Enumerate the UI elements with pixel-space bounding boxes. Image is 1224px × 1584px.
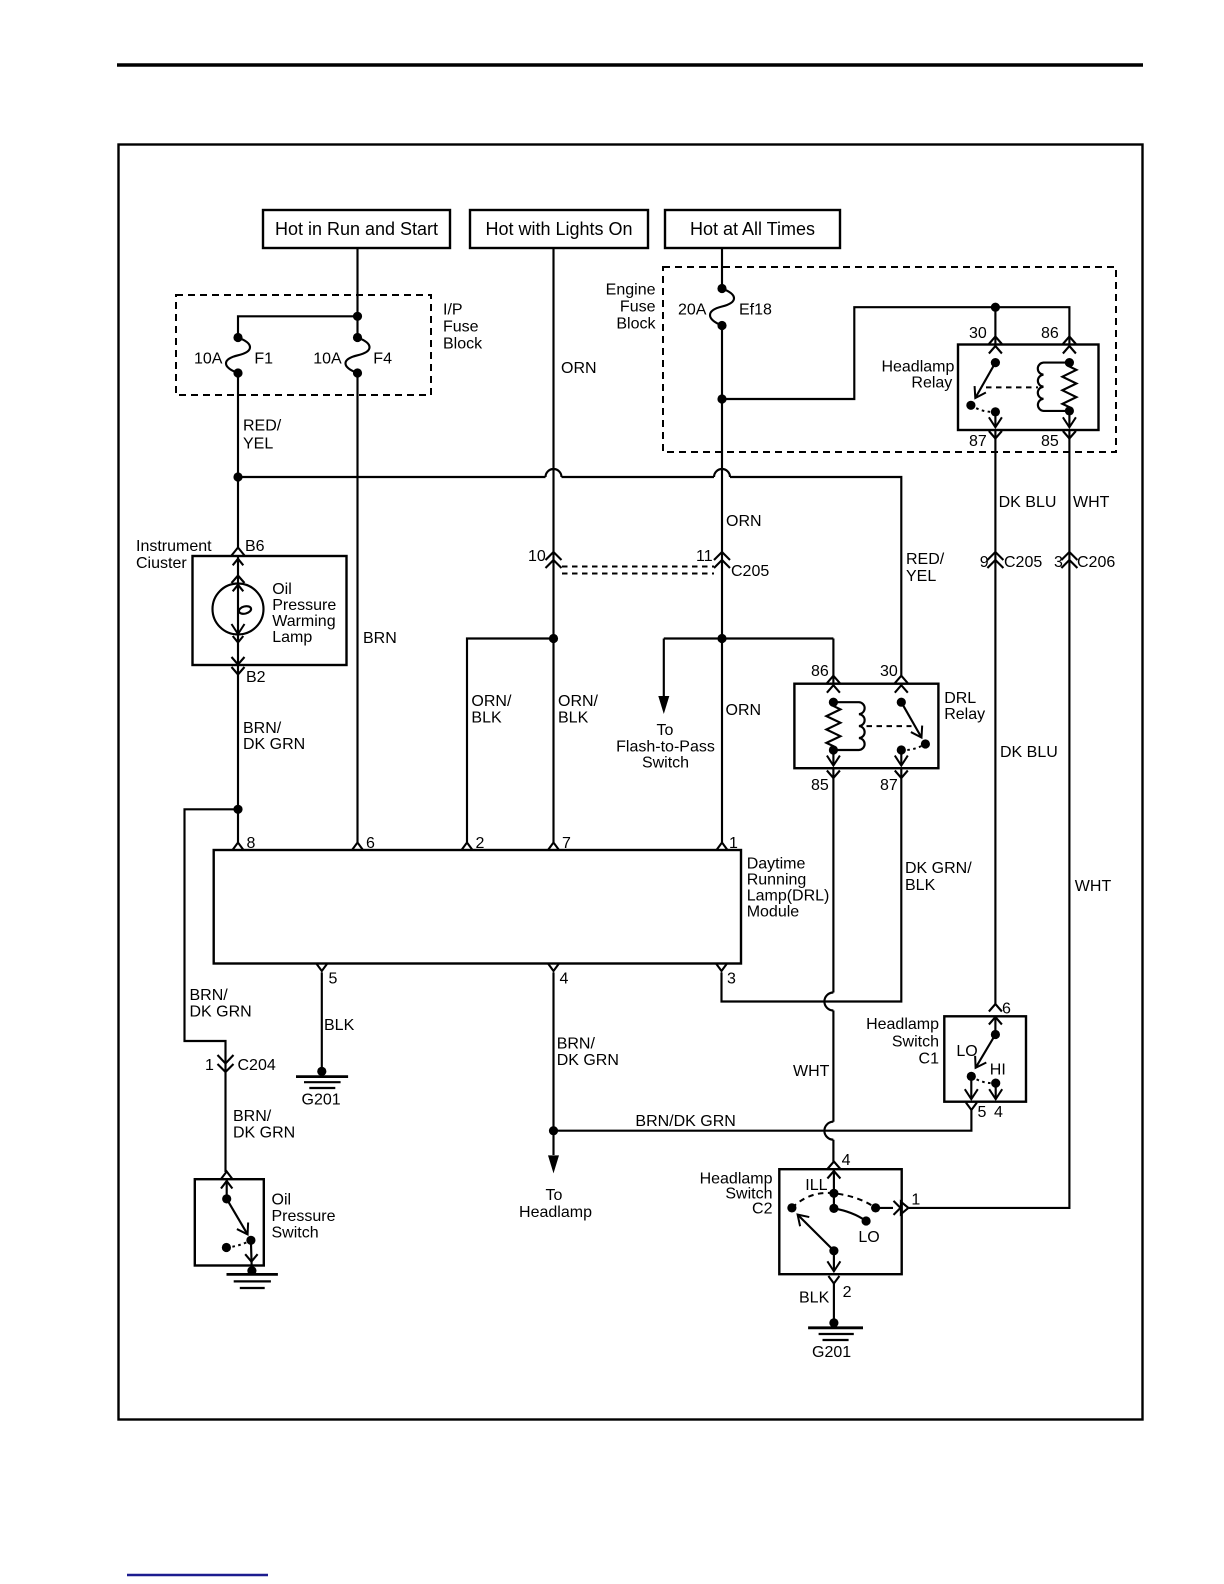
- wire BRN/DK GRN DRL module pin 4 to headlamp: [554, 972, 619, 1155]
- svg-text:Hot with Lights On: Hot with Lights On: [485, 219, 632, 239]
- wire Hot in Run and Start down to I/P fuse block: [356, 248, 358, 338]
- svg-text:Oil: Oil: [272, 1192, 292, 1209]
- node junction ORN/BLK split: [549, 634, 558, 643]
- node to headlamp: [519, 1155, 592, 1221]
- svg-text:Headlamp: Headlamp: [519, 1204, 592, 1221]
- pin 4 headlamp switch C2: [827, 1152, 850, 1179]
- svg-text:Daytime: Daytime: [747, 856, 806, 873]
- svg-text:86: 86: [811, 663, 829, 680]
- svg-text:BRN: BRN: [363, 630, 397, 647]
- svg-text:Hot in Run and Start: Hot in Run and Start: [275, 219, 438, 239]
- wire ORN branch to flash-to-pass and DRL relay 86: [664, 639, 834, 697]
- svg-text:Switch: Switch: [892, 1034, 939, 1051]
- svg-text:C205: C205: [731, 563, 769, 580]
- svg-text:Lamp: Lamp: [272, 629, 312, 646]
- pin 30 DRL relay: [880, 663, 908, 693]
- svg-text:7: 7: [562, 835, 571, 852]
- svg-text:1: 1: [911, 1192, 920, 1209]
- node Hot at All Times: [665, 210, 840, 248]
- pin 6 DRL module: [352, 835, 375, 852]
- svg-text:Block: Block: [443, 336, 483, 353]
- svg-text:LO: LO: [956, 1043, 977, 1060]
- wire Hot at All Times down to Ef18: [721, 248, 723, 289]
- svg-text:10: 10: [528, 548, 546, 565]
- resistor DRL relay: [826, 698, 840, 766]
- svg-text:30: 30: [969, 325, 987, 342]
- svg-text:G201: G201: [302, 1092, 341, 1109]
- svg-text:ORN: ORN: [726, 702, 762, 719]
- svg-text:ORN/: ORN/: [471, 693, 512, 710]
- node RED/YEL junction: [233, 472, 242, 481]
- I/P fuse block: [176, 295, 483, 395]
- switch S1 headlamp switch C1: [866, 1016, 1026, 1102]
- fuse Ef18 20A: [678, 284, 772, 330]
- connector C204 pin 1: [205, 1055, 276, 1074]
- svg-text:Relay: Relay: [911, 375, 952, 392]
- pin 8 DRL module: [233, 835, 256, 852]
- svg-text:87: 87: [880, 777, 898, 794]
- svg-text:6: 6: [366, 835, 375, 852]
- svg-text:DK BLU: DK BLU: [1000, 744, 1058, 761]
- svg-text:Ciuster: Ciuster: [136, 555, 187, 572]
- svg-text:BRN/: BRN/: [190, 987, 229, 1004]
- ground G201 left: [296, 1067, 348, 1109]
- svg-text:Pressure: Pressure: [272, 1208, 336, 1225]
- pin 6 headlamp switch C1: [989, 1001, 1011, 1025]
- wire branch to fuse F1: [238, 316, 358, 337]
- pin B6: [232, 538, 265, 556]
- svg-text:B2: B2: [246, 669, 266, 686]
- wire ORN junction to DRL module pin 1: [722, 639, 761, 843]
- headlamp relay switch: [966, 358, 1000, 427]
- svg-text:ORN: ORN: [726, 513, 762, 530]
- svg-text:WHT: WHT: [1073, 494, 1110, 511]
- svg-text:4: 4: [994, 1104, 1003, 1121]
- pin 85 DRL relay: [811, 771, 840, 795]
- module DRL: daytime running lamp module: [214, 850, 830, 964]
- node junction ORN split: [717, 634, 726, 643]
- svg-text:10A: 10A: [313, 350, 342, 367]
- wire BRN from F4 to DRL module pin 6: [358, 373, 397, 842]
- wire DK BLU headlamp relay 87 to headlamp switch C1 pin 6: [995, 430, 1057, 1004]
- svg-text:4: 4: [560, 971, 569, 988]
- svg-text:Fuse: Fuse: [443, 319, 479, 336]
- svg-text:C206: C206: [1077, 554, 1115, 571]
- wire ORN from Hot with Lights On: [554, 248, 597, 639]
- wire RED/YEL from F1 to instrument cluster B6: [238, 373, 282, 548]
- svg-text:Hot at All Times: Hot at All Times: [690, 219, 815, 239]
- wire ORN/BLK branch to DRL module pin 2: [467, 639, 554, 843]
- svg-text:Headlamp: Headlamp: [881, 359, 954, 376]
- svg-text:4: 4: [842, 1152, 851, 1169]
- svg-text:3: 3: [1054, 554, 1063, 571]
- node junction headlamp relay 30 feed: [991, 303, 1000, 312]
- svg-text:Flash-to-Pass: Flash-to-Pass: [616, 739, 715, 756]
- node Hot with Lights On: [470, 210, 648, 248]
- svg-text:85: 85: [1041, 433, 1059, 450]
- pin 86 DRL relay: [811, 663, 840, 693]
- svg-text:Pressure: Pressure: [272, 597, 336, 614]
- wire BLK DRL module pin 5 to ground: [322, 972, 355, 1071]
- svg-text:BLK: BLK: [905, 877, 936, 894]
- svg-text:8: 8: [247, 835, 256, 852]
- fuse F1 10A: [194, 333, 273, 378]
- svg-text:YEL: YEL: [906, 568, 936, 585]
- relay K1 DRL relay: [794, 684, 985, 769]
- svg-text:C1: C1: [919, 1051, 940, 1068]
- svg-text:BRN/: BRN/: [557, 1036, 596, 1053]
- svg-text:WHT: WHT: [793, 1063, 830, 1080]
- wire BRN/DK GRN C204 to oil pressure switch: [233, 1108, 295, 1142]
- svg-text:ILL: ILL: [805, 1177, 827, 1194]
- svg-text:To: To: [657, 722, 674, 739]
- svg-text:ORN/: ORN/: [558, 693, 599, 710]
- node junction pin 4 wire: [549, 1126, 558, 1135]
- pin 5 headlamp switch C1: [966, 1103, 987, 1122]
- headlamp switch C2 contacts: [787, 1169, 880, 1271]
- svg-text:20A: 20A: [678, 302, 707, 319]
- svg-text:HI: HI: [990, 1062, 1006, 1079]
- connector C206 pin 3: [1054, 552, 1115, 571]
- pin 87 DRL relay: [880, 771, 908, 795]
- svg-text:87: 87: [969, 433, 987, 450]
- pin 2 headlamp switch C2: [828, 1276, 851, 1301]
- svg-text:BLK: BLK: [558, 710, 589, 727]
- svg-text:86: 86: [1041, 325, 1059, 342]
- svg-text:1: 1: [729, 835, 738, 852]
- node Hot in Run and Start: [263, 210, 450, 248]
- ground oil pressure switch: [227, 1266, 278, 1288]
- wire BRN/DK GRN horizontal to headlamp switch C1 pin 5: [554, 1110, 972, 1131]
- connector C205 pin 9: [980, 552, 1043, 571]
- relay U1 headlamp relay: [881, 345, 1098, 431]
- svg-text:Warming: Warming: [272, 613, 335, 630]
- svg-text:Block: Block: [616, 316, 656, 333]
- fuse F4 10A: [313, 333, 392, 378]
- svg-text:C205: C205: [1004, 554, 1042, 571]
- svg-text:RED/: RED/: [243, 418, 282, 435]
- pin 1 headlamp switch C2: [876, 1192, 921, 1215]
- svg-text:BRN/: BRN/: [243, 720, 282, 737]
- svg-text:BRN/DK GRN: BRN/DK GRN: [635, 1113, 735, 1130]
- pin 87 headlamp relay: [969, 431, 1002, 450]
- pin 3 DRL module: [716, 964, 736, 988]
- instrument cluster: [136, 538, 347, 665]
- svg-text:Engine: Engine: [606, 282, 656, 299]
- ground G201 right: [808, 1318, 863, 1361]
- wire BRN/DK GRN from B2 down to DRL module pin 8: [238, 665, 305, 842]
- wire BLK headlamp switch C2 to ground: [799, 1284, 834, 1323]
- svg-text:Instrument: Instrument: [136, 538, 212, 555]
- node to flash-to-pass switch: [616, 696, 715, 772]
- DRL relay switch: [897, 698, 930, 766]
- svg-text:Fuse: Fuse: [620, 299, 656, 316]
- svg-text:DK GRN: DK GRN: [557, 1052, 619, 1069]
- wire ORN/BLK to DRL module pin 7: [554, 639, 599, 843]
- svg-text:LO: LO: [858, 1229, 879, 1246]
- svg-text:Ef18: Ef18: [739, 302, 772, 319]
- wire branch BRN/DK GRN to connector C204: [185, 809, 252, 1172]
- headlamp relay coil: [986, 363, 1069, 411]
- wire RED/YEL junction to DRL relay pin 30: [238, 469, 945, 676]
- svg-text:DK GRN: DK GRN: [190, 1004, 252, 1021]
- svg-text:F1: F1: [254, 350, 273, 367]
- svg-text:30: 30: [880, 663, 898, 680]
- wire ORN fuse Ef18 down to C205 pin 11: [722, 326, 762, 639]
- pin 86 headlamp relay: [1041, 325, 1076, 354]
- svg-text:DRL: DRL: [944, 690, 976, 707]
- connector C205 dashed link: [562, 567, 714, 574]
- svg-text:Relay: Relay: [944, 706, 985, 723]
- svg-text:C2: C2: [752, 1201, 773, 1218]
- svg-text:DK GRN: DK GRN: [233, 1125, 295, 1142]
- svg-text:WHT: WHT: [1075, 878, 1112, 895]
- headlamp switch C1 contacts: [956, 1016, 1005, 1099]
- svg-text:10A: 10A: [194, 350, 223, 367]
- svg-text:3: 3: [727, 971, 736, 988]
- svg-text:Switch: Switch: [642, 755, 689, 772]
- svg-text:Lamp(DRL): Lamp(DRL): [747, 888, 830, 905]
- svg-text:B6: B6: [245, 538, 265, 555]
- svg-text:BRN/: BRN/: [233, 1108, 272, 1125]
- wire Ef18 feed to headlamp relay pins 30 and 86: [722, 307, 1069, 399]
- svg-text:11: 11: [696, 548, 713, 565]
- pin 2 DRL module: [462, 835, 485, 852]
- pin B2: [232, 657, 266, 686]
- svg-text:C204: C204: [238, 1057, 276, 1074]
- svg-text:F4: F4: [373, 350, 392, 367]
- svg-text:ORN: ORN: [561, 360, 597, 377]
- pin oil pressure switch: [221, 1172, 232, 1189]
- lamp: oil pressure warning lamp: [213, 556, 337, 665]
- wire WHT DRL relay 85 down to headlamp switch C2 pin 4: [793, 768, 833, 1161]
- svg-text:BLK: BLK: [324, 1017, 355, 1034]
- node junction on BRN/DK GRN: [233, 805, 242, 814]
- svg-text:85: 85: [811, 777, 829, 794]
- svg-text:Oil: Oil: [272, 581, 292, 598]
- svg-text:DK BLU: DK BLU: [999, 494, 1057, 511]
- svg-text:Headlamp: Headlamp: [866, 1016, 939, 1033]
- svg-text:BLK: BLK: [799, 1290, 830, 1307]
- svg-text:5: 5: [329, 971, 338, 988]
- svg-text:Running: Running: [747, 872, 807, 889]
- svg-text:RED/: RED/: [906, 551, 945, 568]
- svg-text:Module: Module: [747, 904, 800, 921]
- pin 7 DRL module: [548, 835, 571, 852]
- wire WHT headlamp relay 85 to headlamp switch C2 pin 1: [909, 430, 1111, 1208]
- svg-text:DK GRN: DK GRN: [243, 736, 305, 753]
- node junction Ef18 feed: [717, 394, 726, 403]
- oil pressure switch contacts: [222, 1179, 258, 1274]
- svg-text:1: 1: [205, 1057, 214, 1074]
- resistor headlamp relay: [1062, 358, 1076, 427]
- svg-text:2: 2: [476, 835, 485, 852]
- svg-text:5: 5: [978, 1104, 987, 1121]
- DRL relay coil: [833, 702, 911, 750]
- engine fuse block: [606, 267, 1116, 452]
- svg-text:I/P: I/P: [443, 302, 463, 319]
- pin 30 headlamp relay: [969, 325, 1002, 354]
- svg-text:BLK: BLK: [471, 710, 502, 727]
- wire DK GRN/BLK DRL relay 87 to DRL module pin 3: [722, 768, 973, 1001]
- pin 5 DRL module: [316, 964, 337, 988]
- pin 85 headlamp relay: [1041, 431, 1076, 450]
- connector C205 pin 11: [696, 548, 769, 580]
- pin 4 DRL module: [548, 964, 569, 988]
- svg-text:2: 2: [843, 1284, 852, 1301]
- switch S3 oil pressure switch: [195, 1179, 336, 1265]
- svg-text:Switch: Switch: [272, 1225, 319, 1242]
- svg-text:DK GRN/: DK GRN/: [905, 860, 972, 877]
- switch S2 headlamp switch C2: [700, 1169, 902, 1274]
- connector C205 pin 10: [528, 548, 562, 568]
- svg-text:G201: G201: [812, 1344, 851, 1361]
- pin 1 DRL module: [717, 835, 739, 852]
- node junction I/P feed: [353, 312, 362, 321]
- svg-text:9: 9: [980, 554, 989, 571]
- svg-text:6: 6: [1002, 1001, 1011, 1018]
- svg-text:To: To: [546, 1187, 563, 1204]
- svg-text:YEL: YEL: [243, 436, 273, 453]
